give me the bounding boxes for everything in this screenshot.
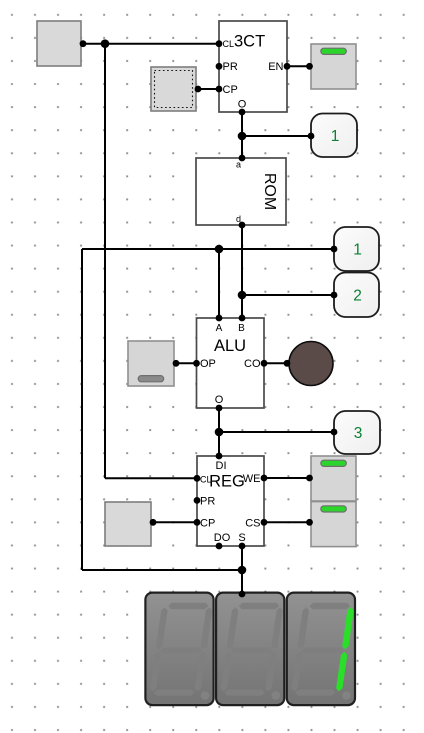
junction sum bus / ALU A [215,245,224,254]
register U4 REG [194,453,268,550]
wire sum bus left rail [81,249,83,570]
counter U1 3CT [216,21,291,115]
LED D1 (off) [284,342,333,386]
svg-text:EN: EN [268,61,283,73]
seven-segment display DS2 (blank) [216,591,284,706]
wire ROM d down to ALU B [241,225,243,318]
switch S2 WE (on) [306,456,356,501]
wire REG CS to switch S3 [264,521,311,523]
push button B1 [37,21,86,66]
wire to probe P1 [242,135,311,137]
svg-text:A: A [216,323,223,334]
svg-text:PR: PR [200,495,215,507]
wire sum bus bottom to display [82,569,242,571]
svg-text:ROM: ROM [261,173,278,210]
svg-text:1: 1 [353,242,362,259]
ALU U3 [193,315,267,412]
svg-text:1: 1 [331,128,340,145]
wire REG S down [241,546,243,570]
wire to probe P3 [219,431,334,433]
junction node at B1 output split [101,39,110,48]
junction ROM d / probe P2b [238,291,247,300]
svg-text:DO: DO [214,532,231,544]
svg-text:CL: CL [223,39,235,49]
svg-text:3: 3 [354,425,363,442]
svg-text:OP: OP [200,358,216,370]
wire sum bus horizontal to probe P1b [82,248,334,250]
svg-text:WE: WE [243,473,261,485]
probe P2b value 2 [331,273,379,318]
probe P1b value 1 [331,227,379,271]
wire net-count: button B1 to counter CL [81,43,219,45]
svg-text:CO: CO [244,358,261,370]
wire to probe P2b [242,294,334,296]
wire dotted button to counter CP [196,88,219,90]
svg-text:REG: REG [209,473,245,491]
wire REG WE to switch S2 [264,477,311,479]
wire counter O down to ROM a [241,112,243,158]
wire junction down to display [241,570,243,594]
svg-text:O: O [238,99,247,111]
push button B2 [105,502,156,546]
svg-text:2: 2 [353,287,362,304]
wire net-count vertical rail to REG CL [104,44,106,479]
svg-text:DI: DI [216,460,227,472]
junction ALU O / probe P3 [215,428,224,437]
seven-segment display DS1 (blank) [145,593,213,706]
switch S4 OP (off) [128,341,179,386]
switch S3 CS (on) [306,502,356,547]
svg-text:a: a [236,160,241,170]
wire ALU CO to LED D1 [264,362,289,364]
wire counter EN to switch S1 [287,65,311,67]
wire switch S4 to ALU OP [174,362,197,364]
svg-text:CP: CP [200,517,215,529]
wire button B2 to REG CP [151,521,197,523]
wire ALU O down to REG DI [218,408,220,456]
probe P3 value 3 [331,411,380,454]
svg-text:ALU: ALU [214,337,246,355]
probe P1 value 1 [308,114,357,158]
wire net-count to REG CL pin [105,477,197,479]
svg-text:O: O [215,394,224,406]
junction counter O / probe P1 [238,132,247,141]
svg-text:3CT: 3CT [234,33,265,51]
svg-text:CS: CS [245,517,260,529]
junction REG S / display [238,566,247,575]
switch S1 EN (on) [306,44,356,89]
svg-text:S: S [238,532,245,544]
svg-text:d: d [236,214,241,224]
ROM U2 [196,155,286,229]
seven-segment display DS3 (shows 1) [287,593,355,706]
svg-text:PR: PR [223,61,238,73]
push button B3 (dotted) [151,67,201,111]
wire sum bus to ALU A [218,249,220,318]
svg-text:CP: CP [223,84,238,96]
svg-text:B: B [238,323,245,334]
